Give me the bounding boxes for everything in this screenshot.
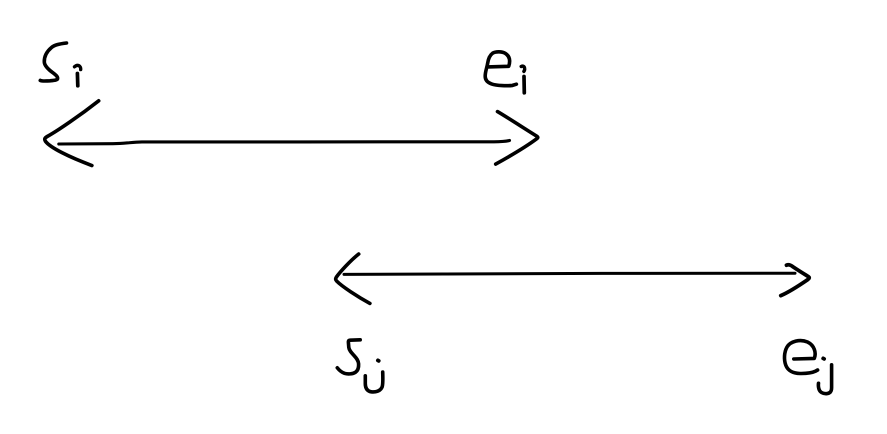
label e_j : subscript j body xyxy=(818,365,831,394)
label s_j : subscript j body xyxy=(365,372,383,392)
label e_j : subscript j dot xyxy=(821,356,826,360)
label e_i : subscript i stem xyxy=(522,77,526,93)
label e_j : letter e xyxy=(784,341,817,374)
bottom interval: left arrowhead xyxy=(336,254,370,303)
label e_i : subscript i tick xyxy=(521,66,524,71)
label s_j : letter S xyxy=(337,340,360,374)
label s_i : subscript i stem xyxy=(76,74,80,86)
top interval: arrow shaft wire xyxy=(59,141,510,145)
label s_j : subscript j dot xyxy=(376,358,381,362)
top interval: left arrowhead xyxy=(45,101,99,166)
top interval: right arrowhead xyxy=(496,112,538,165)
label e_i : letter e xyxy=(485,52,516,86)
label s_i : letter S xyxy=(40,43,66,81)
bottom interval: right arrowhead xyxy=(781,265,809,296)
bottom interval: arrow shaft wire xyxy=(344,273,795,274)
label s_i : subscript i tick xyxy=(75,65,81,69)
